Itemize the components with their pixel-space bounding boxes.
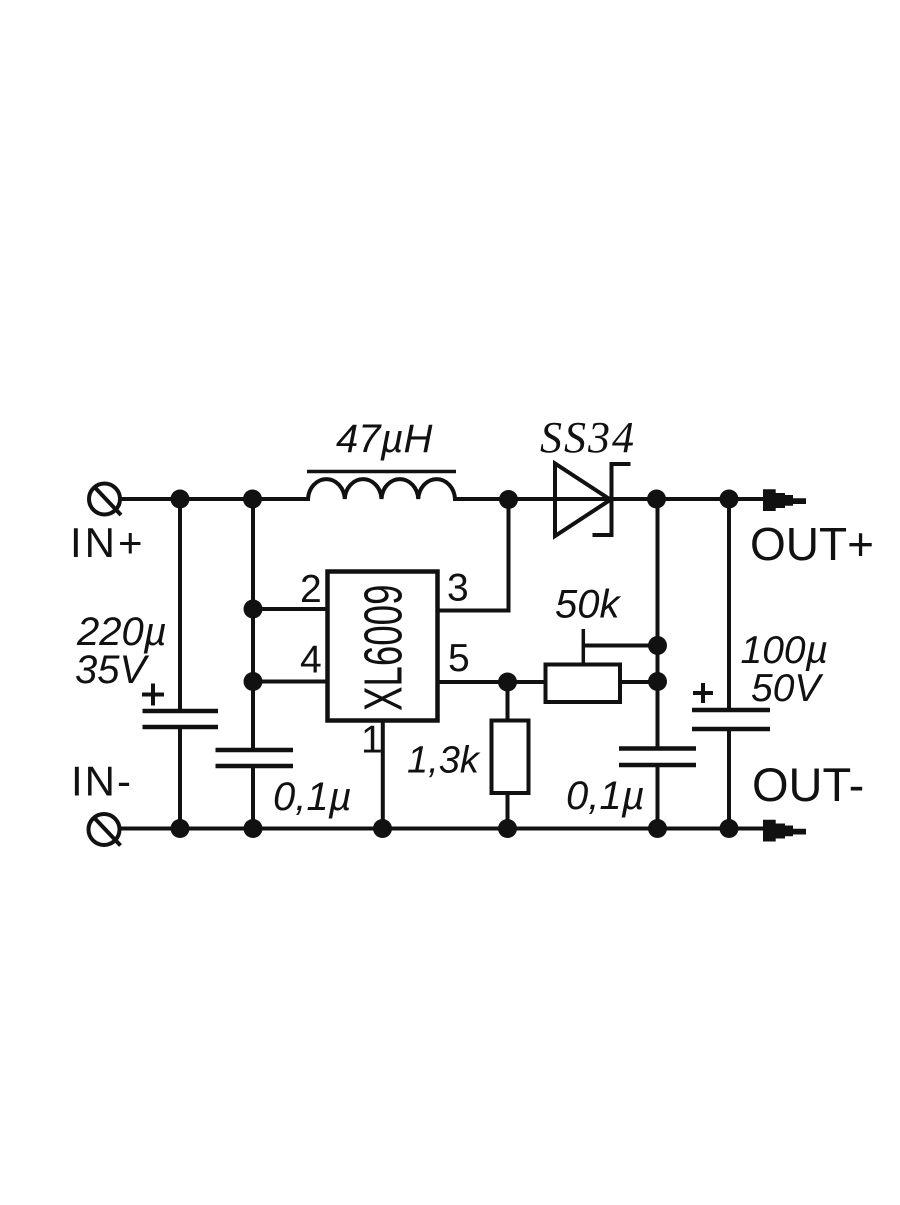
- capacitor C2 0,1µ plates: [216, 750, 294, 766]
- svg-text:50V: 50V: [751, 667, 824, 710]
- svg-text:35V: 35V: [75, 648, 149, 692]
- junction pin 4 node: [244, 672, 263, 691]
- trimmer R2 50k body: [546, 665, 621, 703]
- svg-text:2: 2: [300, 568, 322, 611]
- wire bottom rail IN- to OUT-: [120, 827, 767, 831]
- wire R2 right: [620, 680, 658, 684]
- wiper R2: [583, 629, 657, 665]
- resistor R1 1,3k: [492, 721, 529, 794]
- junction bottom rail at 100µ: [720, 819, 739, 838]
- capacitor C3 0,1µ plates: [619, 749, 696, 766]
- wire top rail IN+ to inductor: [120, 497, 310, 501]
- junction top rail at 100µ: [720, 490, 739, 509]
- svg-text:3: 3: [447, 567, 469, 610]
- wire C2 bottom branch: [251, 766, 255, 829]
- wire C4 bottom branch: [727, 729, 731, 829]
- wire pin 4: [253, 680, 328, 684]
- svg-text:SS34: SS34: [540, 413, 636, 462]
- junction top rail at pin 3: [499, 490, 518, 509]
- wire pin 2: [253, 607, 328, 611]
- wire pins branch vertical: [251, 499, 255, 750]
- junction trimmer right node: [648, 672, 667, 691]
- wire 100µ top branch: [727, 499, 731, 710]
- diode D1 SS34 schottky: [555, 462, 631, 537]
- svg-text:100µ: 100µ: [741, 629, 829, 672]
- wire pin 1: [381, 721, 385, 829]
- junction bottom rail at C3: [648, 819, 667, 838]
- junction top rail at pins branch: [243, 490, 262, 509]
- wire R1 bottom: [506, 793, 510, 829]
- junction pin 2 node: [244, 600, 263, 619]
- svg-text:5: 5: [448, 637, 470, 680]
- junction bottom rail at R1: [498, 819, 517, 838]
- svg-text:50k: 50k: [555, 583, 621, 627]
- svg-text:1,3k: 1,3k: [407, 740, 481, 782]
- wire pin 5: [437, 680, 546, 684]
- junction pin 5 node: [498, 673, 517, 692]
- junction top rail at 220µ: [171, 490, 190, 509]
- svg-text:47µH: 47µH: [336, 417, 433, 461]
- op-amp U1 XL6009 box: [328, 572, 438, 721]
- polarity plus C1: [142, 684, 164, 706]
- svg-text:OUT+: OUT+: [750, 518, 874, 570]
- svg-text:IN-: IN-: [71, 758, 133, 805]
- polarity plus C4: [693, 683, 713, 703]
- svg-text:XL6009: XL6009: [354, 585, 414, 712]
- svg-text:IN+: IN+: [70, 519, 146, 566]
- wire R1 top: [506, 682, 510, 721]
- junction bottom rail at C2: [244, 819, 263, 838]
- inductor L1: [307, 472, 456, 500]
- wire C3 bottom branch: [656, 765, 660, 829]
- wire pin 3: [437, 499, 511, 613]
- junction top rail after diode: [647, 490, 666, 509]
- arrow OUT+: [763, 489, 806, 511]
- arrow OUT-: [763, 820, 806, 842]
- junction bottom rail at pin 1: [373, 819, 392, 838]
- svg-text:OUT-: OUT-: [752, 758, 864, 811]
- svg-text:0,1µ: 0,1µ: [566, 774, 645, 818]
- junction bottom rail at 220µ: [171, 819, 190, 838]
- svg-text:1: 1: [361, 719, 383, 762]
- capacitor C1 220µ plates: [143, 711, 219, 727]
- svg-text:0,1µ: 0,1µ: [273, 775, 352, 819]
- wire 220µ bottom branch: [178, 727, 182, 829]
- capacitor C4 100µ plates: [692, 710, 770, 729]
- svg-text:4: 4: [300, 639, 322, 682]
- junction wiper node: [648, 636, 667, 655]
- wire feedback vertical: [656, 499, 660, 749]
- wire top rail inductor to OUT+: [453, 497, 766, 501]
- terminal IN-: [89, 814, 121, 846]
- wire 220µ top branch: [178, 499, 182, 711]
- terminal IN+: [89, 484, 121, 516]
